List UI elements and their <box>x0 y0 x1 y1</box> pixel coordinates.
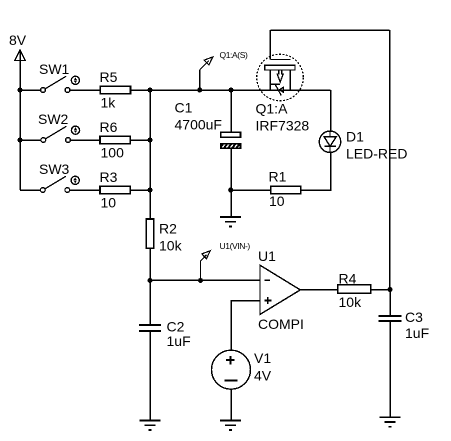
svg-text:IRF7328: IRF7328 <box>256 118 310 134</box>
wire SW2 to R6 <box>70 139 100 141</box>
svg-text:10: 10 <box>269 193 285 209</box>
wire main horizontal node y90 <box>150 89 331 91</box>
svg-text:R3: R3 <box>100 169 118 185</box>
svg-text:Q1:A: Q1:A <box>256 101 289 117</box>
svg-text:10k: 10k <box>339 294 363 310</box>
wire R1 to D1 <box>301 153 331 191</box>
svg-text:1uF: 1uF <box>167 333 191 349</box>
resistor R6 <box>100 119 131 161</box>
svg-text:Q1:A(S): Q1:A(S) <box>220 50 248 60</box>
capacitor C1 (polarized) <box>175 100 246 151</box>
resistor R5 <box>100 69 131 111</box>
svg-text:10k: 10k <box>159 238 183 254</box>
svg-text:U1(VIN-): U1(VIN-) <box>220 241 251 251</box>
wire C1 stem <box>230 90 232 133</box>
op-amp U1 COMPI <box>258 248 304 332</box>
wire R2 to node IN- <box>149 248 151 280</box>
wire R6 to bus <box>130 139 150 141</box>
switch SW1 <box>39 61 70 92</box>
svg-text:8V: 8V <box>9 32 27 48</box>
wire op-amp output to R4 <box>300 289 338 291</box>
wire top rail <box>270 29 389 31</box>
switch SW2 actuator <box>71 126 79 134</box>
wire plus input <box>231 301 260 351</box>
svg-text:V1: V1 <box>254 350 271 366</box>
wire D1 to Q1 drain row <box>330 90 332 131</box>
svg-text:LED-RED: LED-RED <box>346 146 407 162</box>
switch SW1 actuator <box>71 76 79 84</box>
resistor R3 <box>100 169 131 211</box>
svg-text:C1: C1 <box>175 100 193 116</box>
wire R1 row <box>231 189 271 191</box>
svg-text:COMPI: COMPI <box>258 316 304 332</box>
svg-text:10: 10 <box>101 195 117 211</box>
node junction dots <box>18 88 393 293</box>
ground under C2 <box>140 421 161 431</box>
svg-text:D1: D1 <box>346 129 364 145</box>
resistor R4 <box>338 271 371 310</box>
svg-text:SW2: SW2 <box>38 111 69 127</box>
wire node to C2 <box>149 280 151 324</box>
capacitor C2 <box>139 319 191 349</box>
switch SW3 <box>39 161 70 192</box>
source V1 <box>212 350 272 389</box>
wire C2 to ground <box>149 332 151 421</box>
wire SW1 row left <box>20 89 41 91</box>
wire SW3 row left <box>20 189 40 191</box>
svg-text:R4: R4 <box>339 271 357 287</box>
wire SW3 to R3 <box>70 189 100 191</box>
probe U1(VIN-) <box>201 241 251 280</box>
svg-text:SW1: SW1 <box>39 61 70 77</box>
wire V1 to ground <box>230 389 232 420</box>
wire right rail to C3 <box>389 290 391 317</box>
resistor R1 <box>269 169 301 209</box>
probe Q1:A(S) <box>200 50 248 90</box>
wire R5 to bus <box>131 89 151 91</box>
svg-text:4V: 4V <box>254 368 272 384</box>
wire right rail upper <box>389 30 391 290</box>
wire bus vertical (node after resistors) <box>149 90 151 219</box>
switch SW3 actuator <box>71 176 79 184</box>
svg-text:R5: R5 <box>100 69 118 85</box>
svg-text:1k: 1k <box>101 95 117 111</box>
wire SW1 to R5 <box>70 89 100 91</box>
ground under C3 <box>380 417 401 427</box>
svg-text:U1: U1 <box>258 248 276 264</box>
ground under V1 <box>220 421 241 431</box>
svg-text:R2: R2 <box>159 221 177 237</box>
svg-text:100: 100 <box>101 145 125 161</box>
svg-text:4700uF: 4700uF <box>175 117 222 133</box>
power 8V arrow symbol <box>15 50 25 61</box>
wire R3 to bus <box>130 189 150 191</box>
resistor R2 <box>146 219 182 254</box>
ground under C1 <box>220 217 241 227</box>
wire IN- row to op-amp <box>150 279 260 281</box>
svg-text:SW3: SW3 <box>39 161 70 177</box>
wire R4 to right rail <box>371 289 390 291</box>
wire C1 to ground node <box>230 149 232 217</box>
svg-text:1uF: 1uF <box>405 325 429 341</box>
wire left rail <box>19 51 21 190</box>
svg-text:C3: C3 <box>405 309 423 325</box>
transistor Q1 (MOSFET IRF7328) <box>256 30 310 134</box>
svg-text:R6: R6 <box>100 119 118 135</box>
LED D1 <box>319 129 407 162</box>
wire C3 to ground <box>389 322 391 417</box>
capacitor C3 <box>379 309 430 341</box>
svg-text:R1: R1 <box>269 169 287 185</box>
wire SW2 row left <box>20 139 41 141</box>
switch SW2 <box>38 111 70 142</box>
